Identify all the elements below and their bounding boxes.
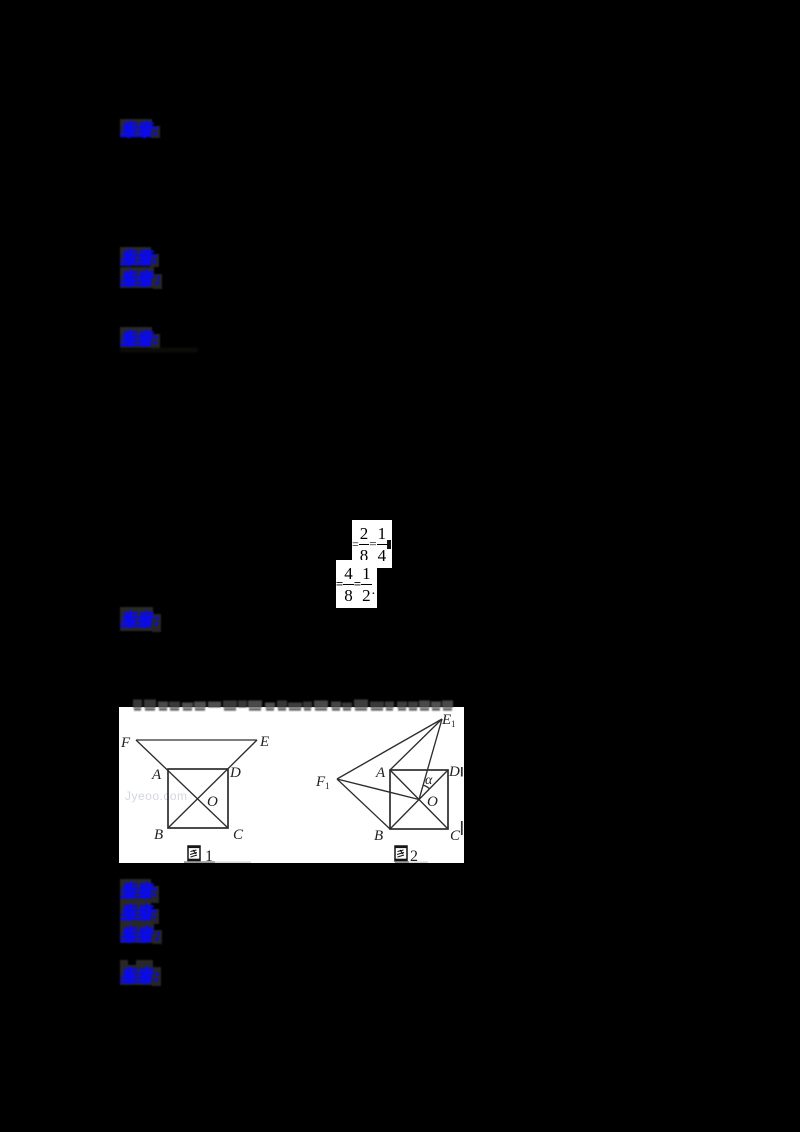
svg-text:1: 1	[205, 848, 213, 863]
svg-text:D: D	[448, 764, 460, 780]
svg-text:C: C	[450, 828, 461, 844]
svg-text:A: A	[151, 767, 162, 783]
svg-text:C: C	[233, 827, 244, 843]
svg-text:Jyeoo.com: Jyeoo.com	[125, 789, 188, 803]
svg-text:F: F	[120, 735, 131, 751]
svg-text:α: α	[425, 773, 433, 788]
svg-text:1: 1	[325, 781, 330, 791]
svg-text:D: D	[229, 765, 241, 781]
svg-text:O: O	[427, 794, 438, 810]
svg-text:B: B	[154, 827, 163, 843]
svg-text:A: A	[375, 765, 386, 781]
svg-text:E: E	[259, 734, 269, 750]
svg-text:E: E	[441, 712, 451, 728]
svg-text:B: B	[374, 828, 383, 844]
svg-text:O: O	[207, 794, 218, 810]
svg-text:2: 2	[410, 848, 418, 863]
svg-text:1: 1	[451, 719, 456, 729]
